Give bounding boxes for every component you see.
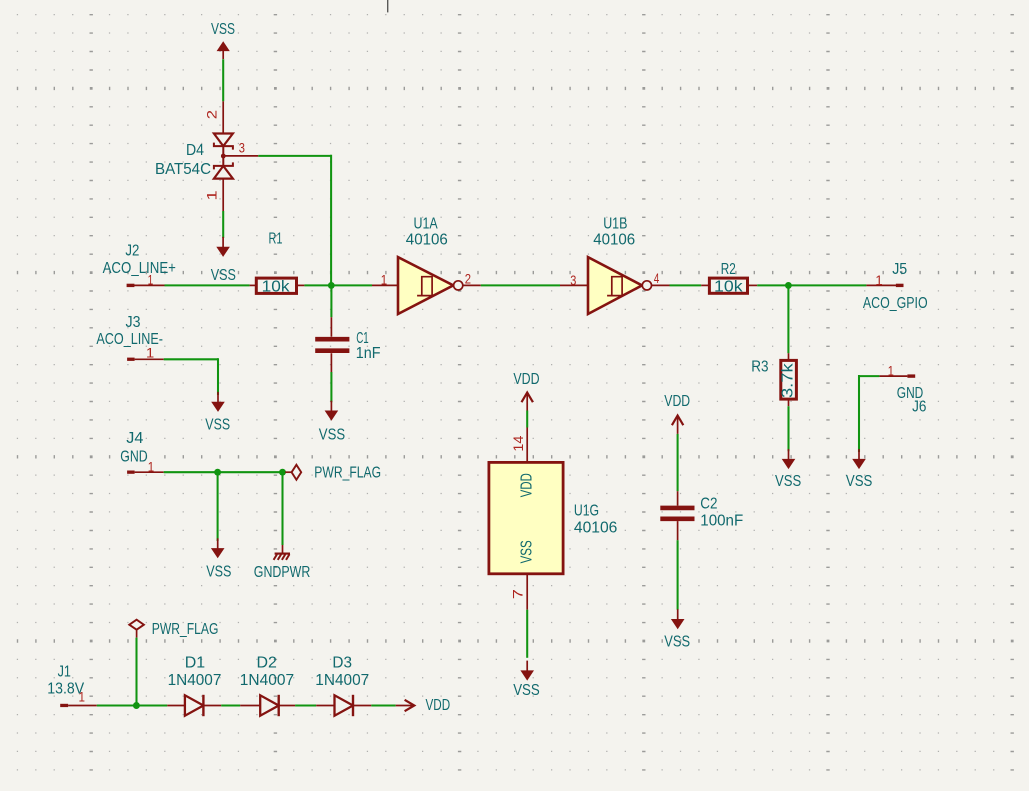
svg-text:D3: D3	[332, 654, 352, 671]
diode D4 junction dot	[221, 154, 226, 159]
svg-text:1N4007: 1N4007	[168, 672, 222, 689]
wire J4 bus	[164, 471, 286, 473]
power VSS (below R3)	[775, 406, 801, 490]
svg-text:1: 1	[148, 459, 155, 475]
power VSS (below D4)	[211, 211, 236, 284]
svg-text:VSS: VSS	[846, 473, 873, 490]
node junction at R2/R3	[785, 282, 792, 289]
diode D4 pin 3	[223, 140, 258, 156]
wire D2 to D3	[295, 704, 316, 706]
svg-text:40106: 40106	[574, 519, 618, 536]
resistor R1 10k	[250, 231, 305, 296]
svg-text:1: 1	[146, 345, 154, 361]
svg-text:1: 1	[203, 190, 219, 200]
svg-text:VSS: VSS	[205, 416, 230, 433]
svg-text:1nF: 1nF	[356, 345, 381, 362]
power VSS (below J6)	[846, 449, 873, 490]
diode D3 1N4007	[315, 654, 371, 716]
svg-text:2: 2	[203, 110, 219, 120]
power VDD (above U1G)	[513, 371, 539, 411]
wire D3 to VDD	[371, 704, 395, 706]
sheet edge line	[387, 0, 389, 12]
wire	[222, 59, 224, 101]
node junction J4-VSS	[214, 469, 221, 476]
svg-text:40106: 40106	[593, 231, 635, 248]
svg-text:J5: J5	[892, 261, 907, 278]
wire VDD to C2	[677, 434, 679, 491]
wire J4 to GNDPWR	[281, 472, 283, 545]
svg-text:D1: D1	[185, 654, 206, 671]
svg-text:VSS: VSS	[211, 21, 235, 38]
node junction J4-GNDPWR	[279, 469, 286, 476]
svg-text:1N4007: 1N4007	[315, 672, 369, 689]
svg-text:7: 7	[510, 589, 526, 599]
power VSS (below C2)	[664, 609, 690, 650]
wire J2 to R1	[165, 284, 250, 286]
ic U1G 40106 power unit	[489, 428, 618, 610]
diode D1 1N4007	[167, 654, 221, 716]
connector J4 GND	[120, 430, 163, 475]
svg-text:10k: 10k	[262, 279, 291, 296]
svg-text:R2: R2	[721, 261, 736, 278]
power flag PWR_FLAG (J4)	[285, 464, 381, 481]
wire U1A to U1B	[481, 284, 560, 286]
svg-text:VSS: VSS	[206, 563, 231, 580]
diode D4 BAT54C	[155, 134, 233, 179]
power VSS (below J4)	[206, 538, 231, 580]
svg-text:14: 14	[510, 435, 526, 451]
diode D4 pin 1	[203, 179, 223, 211]
wire R1 to node	[304, 284, 331, 286]
svg-text:100nF: 100nF	[700, 513, 743, 530]
svg-text:VSS: VSS	[319, 427, 345, 444]
svg-text:VDD: VDD	[426, 697, 451, 714]
svg-text:BAT54C: BAT54C	[155, 161, 211, 178]
svg-text:J4: J4	[126, 430, 143, 447]
op-amp U1A 40106 inverter	[372, 215, 481, 314]
wire D4 pin3 to node	[258, 155, 331, 286]
node junction at R1/C1	[328, 282, 335, 289]
svg-text:1N4007: 1N4007	[240, 672, 294, 689]
power VSS (below C1)	[319, 372, 345, 444]
connector J6 GND	[879, 363, 926, 416]
svg-text:VDD: VDD	[513, 371, 539, 388]
wire node to R3	[787, 285, 789, 353]
power GNDPWR	[254, 545, 310, 581]
svg-text:J3: J3	[126, 314, 141, 331]
wire D1 to D2	[221, 704, 240, 706]
svg-text:3: 3	[239, 140, 245, 156]
svg-text:PWR_FLAG: PWR_FLAG	[314, 464, 381, 481]
svg-text:ACO_LINE+: ACO_LINE+	[103, 260, 176, 277]
svg-text:10k: 10k	[714, 279, 744, 296]
svg-text:J1: J1	[58, 664, 71, 681]
capacitor C2 100nF	[660, 491, 743, 540]
wire U1G pin7 to VSS	[526, 610, 528, 658]
svg-text:1: 1	[79, 689, 86, 705]
wire R2 to node	[757, 284, 866, 286]
svg-text:VDD: VDD	[519, 473, 536, 497]
svg-text:1: 1	[381, 271, 388, 287]
diode D4 pin 2	[203, 101, 223, 133]
wire U1B to R2	[670, 284, 702, 286]
svg-text:D4: D4	[186, 142, 204, 159]
svg-text:D2: D2	[257, 654, 278, 671]
op-amp U1B 40106 inverter	[560, 215, 670, 314]
power VSS (below U1G)	[513, 661, 540, 699]
svg-text:GNDPWR: GNDPWR	[254, 564, 310, 581]
svg-text:R1: R1	[269, 231, 283, 248]
svg-text:3.7k: 3.7k	[780, 362, 797, 398]
svg-text:J6: J6	[912, 398, 926, 415]
connector J5 ACO_GPIO	[863, 261, 928, 312]
svg-text:1: 1	[888, 363, 894, 379]
svg-text:2: 2	[465, 270, 471, 286]
svg-text:U1B: U1B	[603, 215, 627, 232]
svg-text:VSS: VSS	[519, 540, 536, 563]
resistor R2 10k	[701, 261, 757, 296]
svg-text:VSS: VSS	[775, 473, 801, 490]
svg-text:VDD: VDD	[664, 393, 690, 410]
wire VDD to U1G	[526, 411, 528, 428]
wire J4 to VSS	[217, 472, 219, 541]
wire C2 to VSS	[677, 540, 679, 609]
svg-text:VSS: VSS	[664, 634, 690, 651]
connector J1 13.8V	[47, 664, 97, 708]
svg-text:U1A: U1A	[414, 215, 438, 232]
svg-text:GND: GND	[120, 449, 147, 466]
connector J3 ACO_LINE-	[96, 314, 163, 361]
node junction J1/PWR_FLAG	[133, 702, 140, 709]
svg-text:R3: R3	[751, 359, 768, 376]
power VSS (below J3)	[205, 392, 230, 433]
svg-text:C2: C2	[700, 495, 717, 512]
svg-text:1: 1	[875, 272, 882, 288]
svg-text:PWR_FLAG: PWR_FLAG	[152, 621, 219, 638]
power flag PWR_FLAG (J1)	[129, 620, 218, 638]
svg-text:3: 3	[570, 272, 576, 288]
svg-text:J2: J2	[125, 242, 139, 259]
svg-text:1: 1	[148, 271, 154, 287]
wire J3 to VSS	[164, 358, 218, 395]
svg-text:VSS: VSS	[513, 682, 540, 699]
power VSS (above D4)	[211, 21, 235, 59]
capacitor C1 1nF	[315, 317, 381, 372]
svg-text:40106: 40106	[406, 231, 448, 248]
wire node to D1	[136, 704, 167, 706]
wire J1 to node	[97, 704, 137, 706]
diode D2 1N4007	[240, 654, 295, 716]
svg-text:4: 4	[654, 270, 660, 286]
wire node to U1A	[331, 284, 372, 286]
connector J2 ACO_LINE+	[103, 242, 176, 287]
svg-text:U1G: U1G	[574, 503, 599, 520]
wire node to C1	[330, 285, 332, 317]
wire PWR_FLAG down	[135, 638, 137, 706]
power VDD (above C2)	[664, 393, 690, 434]
resistor R3 3.7k	[751, 353, 796, 406]
svg-text:ACO_GPIO: ACO_GPIO	[863, 295, 928, 312]
power VDD (right)	[396, 697, 451, 714]
wire J6 to VSS	[859, 375, 879, 452]
svg-text:VSS: VSS	[211, 267, 236, 284]
